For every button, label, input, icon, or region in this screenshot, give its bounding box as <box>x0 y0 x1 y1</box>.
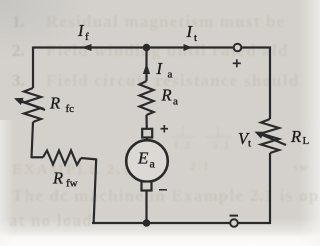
svg-text:fw: fw <box>66 178 78 190</box>
svg-text:Field circuit resistance shoul: Field circuit resistance should <box>46 71 299 90</box>
svg-text:EXAMPLE 2.1: EXAMPLE 2.1 <box>12 162 132 178</box>
svg-text:at no load: at no load <box>9 211 93 230</box>
svg-text:a: a <box>173 96 178 108</box>
svg-text:3.: 3. <box>12 71 25 90</box>
svg-text:5.1: 5.1 <box>212 138 231 152</box>
svg-text:R: R <box>290 127 301 146</box>
svg-text:t: t <box>194 32 197 44</box>
svg-text:t: t <box>248 138 251 150</box>
svg-text:The dc machine in Example 2.1: The dc machine in Example 2.1 is op <box>12 186 319 205</box>
svg-text:2.1: 2.1 <box>190 159 211 173</box>
svg-text:f: f <box>85 31 89 43</box>
svg-text:1.2: 1.2 <box>173 138 192 152</box>
svg-text:a: a <box>168 69 173 81</box>
svg-text:R: R <box>161 86 172 105</box>
svg-text:E: E <box>137 149 149 168</box>
svg-text:a: a <box>150 157 156 171</box>
svg-text:Field winding until rated ald: Field winding until rated ald <box>46 41 289 60</box>
svg-text:sw: sw <box>293 159 310 174</box>
svg-text:L: L <box>303 135 310 147</box>
svg-text:2.: 2. <box>12 41 25 60</box>
svg-text:1.: 1. <box>12 12 25 31</box>
svg-text:R: R <box>52 169 63 188</box>
svg-text:fc: fc <box>66 103 75 115</box>
svg-text:R: R <box>49 94 60 113</box>
